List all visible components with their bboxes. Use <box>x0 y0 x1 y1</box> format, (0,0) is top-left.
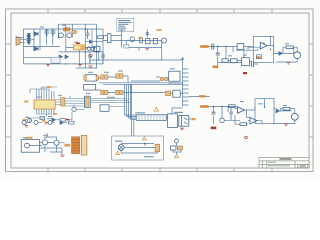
op-amp U18 <box>260 42 267 49</box>
wire J1 pins <box>20 39 25 42</box>
opto U12 <box>101 90 108 95</box>
wire cluster B loop <box>85 49 99 60</box>
border zone ticks bottom <box>48 168 272 172</box>
border inner frame <box>11 13 309 168</box>
border zone ticks left <box>6 44 12 137</box>
label net q7 <box>23 119 27 121</box>
resistor R7 <box>66 119 74 124</box>
resistor R6 <box>283 108 290 111</box>
wire rc2 net <box>224 99 264 125</box>
feedback loop box FB <box>253 36 273 62</box>
wire bus to bottom box <box>132 84 134 136</box>
wire mcu bottom pins <box>37 109 55 116</box>
capacitor C9 <box>252 61 254 67</box>
wire mcu to bus <box>91 99 131 107</box>
diode D11 <box>60 121 67 124</box>
label net mid <box>199 95 206 97</box>
label box title <box>115 141 122 142</box>
box outline motor unit <box>112 136 164 160</box>
crystal Y1 <box>40 117 45 120</box>
transistor Q3 <box>87 47 91 51</box>
regulator U2 <box>73 45 85 50</box>
label box bottom <box>144 156 154 157</box>
capacitor C1 <box>44 29 49 36</box>
diode D9 <box>279 52 283 56</box>
transistor Q7 <box>28 119 32 123</box>
wire lower link <box>47 112 72 120</box>
resistor pack RP1 <box>72 137 80 154</box>
diode D3 <box>59 55 63 59</box>
resistor R2 <box>230 59 237 63</box>
sheet background <box>0 0 320 179</box>
label LB5 <box>25 137 32 139</box>
capacitor C12 <box>229 107 233 120</box>
label LB6 <box>65 144 71 147</box>
capacitor C2 <box>51 29 56 36</box>
capacitor C11 <box>86 29 89 39</box>
capacitor C4 <box>88 52 92 64</box>
wire driver net <box>29 133 64 154</box>
wire rc1 input <box>209 47 237 63</box>
resistor R1 <box>222 59 228 62</box>
transistor Q4 <box>91 47 95 51</box>
label LB2 <box>156 29 161 31</box>
resistor R12 <box>257 55 262 59</box>
wire motor loop <box>121 144 157 154</box>
label net left of IC <box>24 101 28 103</box>
wire mcu top fan <box>30 87 57 100</box>
border zone ticks top <box>48 9 272 13</box>
resistor R10 <box>60 119 66 122</box>
transducer BZ1 <box>294 52 301 59</box>
capacitor C10 <box>212 112 216 114</box>
label net top <box>47 86 51 88</box>
relay K2 <box>179 116 189 127</box>
junction dots rc1 <box>217 46 271 50</box>
ic U6 <box>146 39 150 44</box>
transistor Q1 <box>59 33 64 38</box>
wire q8 <box>74 105 85 110</box>
op-amp U20 <box>250 118 257 124</box>
ground GND6 <box>25 126 29 128</box>
label net sig <box>107 97 115 98</box>
feedback loop box FB2 <box>255 99 274 124</box>
diode D13 <box>90 40 93 43</box>
ic U21 <box>21 140 39 153</box>
transistor Q15 <box>54 140 59 145</box>
warning triangle W1 <box>154 107 158 111</box>
wire rc2 inner <box>247 110 251 117</box>
opto U8 <box>84 75 99 81</box>
transducer BZ2 <box>291 113 298 120</box>
wire header column <box>183 63 189 107</box>
connector J1 <box>16 37 20 46</box>
wire rc1 right <box>276 47 297 62</box>
wire rc1 rail <box>218 47 250 63</box>
connector array J4 <box>136 115 166 121</box>
title block small text <box>268 165 290 166</box>
label J4 <box>138 112 145 113</box>
ground GND2 <box>78 65 82 67</box>
ground GND13 <box>60 155 64 157</box>
label net VIN2 <box>200 105 209 108</box>
ground GND3 <box>89 66 93 68</box>
opto U13 <box>116 90 123 95</box>
ground GND4 <box>90 55 93 56</box>
connector J2 <box>107 34 111 43</box>
diode D7 <box>160 77 164 81</box>
title block title text <box>280 158 292 160</box>
ground GND8 <box>180 128 184 130</box>
wire middle row links <box>96 76 131 93</box>
diode D2 <box>34 47 38 51</box>
ground GND14 <box>243 72 247 74</box>
connector J4 pins <box>139 115 163 121</box>
border outer frame <box>6 9 314 172</box>
junction motor <box>144 143 146 145</box>
wire regulator <box>66 47 97 64</box>
ferrite FB1 <box>237 44 244 50</box>
wire rc2 input <box>209 107 237 125</box>
border zone ticks right <box>309 44 313 137</box>
label GND11 <box>211 127 217 130</box>
capacitor C5 <box>101 52 105 64</box>
label LB3 <box>53 113 57 115</box>
wire rc2 right <box>274 109 295 124</box>
inductor L1 <box>71 30 77 33</box>
warning triangle W2 <box>142 137 146 140</box>
resistor R4 <box>229 105 236 108</box>
transistor Q12 <box>48 121 55 125</box>
wire psu rails <box>16 24 103 68</box>
ground GND12 <box>284 124 288 126</box>
label U2 <box>76 43 80 44</box>
indicator dot red <box>245 136 248 139</box>
ic U23 <box>173 90 180 97</box>
ground GND1 <box>46 65 50 67</box>
notes box N1 <box>117 18 134 31</box>
ground GND10 <box>287 63 291 65</box>
ic U5 <box>94 46 100 51</box>
resistor R11 <box>98 36 104 39</box>
filter box FL2 <box>124 45 129 48</box>
opto U9 <box>101 75 108 80</box>
fuse F1 <box>155 144 160 151</box>
led LED1 <box>175 139 179 143</box>
wire bus link left <box>131 77 183 83</box>
mcu U3 <box>34 100 55 109</box>
connector J3 <box>85 96 91 107</box>
resistor network RN1 <box>61 98 65 106</box>
relay K1 <box>64 28 70 31</box>
wire under mcu <box>26 114 54 125</box>
transistor Q9 <box>220 118 225 123</box>
wire led net <box>173 143 181 154</box>
ic U17 <box>242 58 250 66</box>
capacitor C8 <box>216 53 220 55</box>
wire relay link <box>166 108 192 119</box>
label net VIN1 <box>200 45 209 48</box>
transistor Q13 <box>25 143 30 148</box>
wire bus horizontal pair <box>99 76 183 93</box>
wire row2 link <box>131 93 183 94</box>
diode D4 <box>65 55 69 59</box>
opto U10 <box>116 74 123 79</box>
notes text <box>118 20 132 30</box>
motor M1 <box>118 145 124 151</box>
transistor Q14 <box>42 140 47 145</box>
label relay title <box>174 112 183 113</box>
transistor Q11 <box>34 120 45 125</box>
ic U22 <box>100 105 109 112</box>
regulator U2 pad <box>81 46 85 50</box>
label LB1 <box>138 37 142 39</box>
resistor R8 <box>171 146 177 150</box>
label GND9 <box>213 66 219 69</box>
warning triangle W3 <box>116 151 120 154</box>
transistor Q2 <box>67 33 72 38</box>
capacitor C7 <box>212 44 214 50</box>
wire psu extra <box>85 29 103 47</box>
label net fb <box>256 56 261 58</box>
junction dots rc2 <box>213 106 265 108</box>
diode D1 <box>34 32 38 36</box>
ic U7 <box>153 39 157 44</box>
resistor R3 <box>286 46 293 49</box>
resistor R9 <box>177 146 182 150</box>
net arrow up A1 <box>181 58 184 64</box>
label LB4 <box>192 118 196 120</box>
diode D8 <box>164 77 168 81</box>
wire chain main <box>122 29 163 51</box>
ground GND7 <box>45 123 49 125</box>
capacitor C6 <box>146 33 149 35</box>
ic U14 <box>169 71 180 81</box>
tiny designator texts <box>23 25 289 138</box>
transistor Q8 <box>72 107 76 111</box>
ground GND5 <box>146 49 149 50</box>
diode D6 <box>52 118 56 122</box>
wire long net to arrow <box>97 48 183 61</box>
wire rc1 mid <box>228 47 258 65</box>
diode D5 <box>139 39 142 43</box>
connector J5 <box>81 135 87 155</box>
op-amp U19 <box>238 107 245 113</box>
wire mcu right <box>55 96 84 106</box>
wire bus verticals down <box>125 84 137 119</box>
opto U11 <box>84 85 96 91</box>
junction dots psu <box>58 28 97 64</box>
wire c8 gnd <box>217 62 219 66</box>
filter box FL1 <box>51 57 60 63</box>
resistor R5 <box>240 123 247 126</box>
diode D12 <box>166 91 171 96</box>
title block <box>259 158 309 169</box>
transformer T1 <box>27 33 31 45</box>
ic U16 <box>168 114 178 128</box>
diode D10 <box>276 109 280 113</box>
transistor Q6 <box>162 38 167 43</box>
warning triangle W4 <box>175 154 179 157</box>
wire long mid link <box>189 96 210 98</box>
transistor Q5 <box>130 37 135 42</box>
wire J2 pins <box>103 30 122 48</box>
wire opamp out <box>249 36 279 53</box>
transistor Q10 <box>22 121 29 125</box>
